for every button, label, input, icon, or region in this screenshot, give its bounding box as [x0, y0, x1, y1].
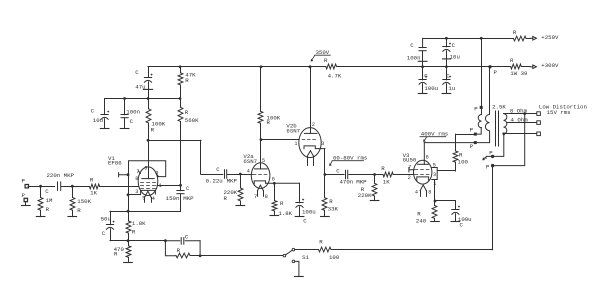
node P (UL tap probe)	[474, 133, 477, 136]
V2a grid (dashed)	[253, 174, 267, 176]
svg-text:4: 4	[152, 196, 155, 202]
V3 cathode lead	[434, 180, 436, 201]
svg-text:C: C	[130, 118, 134, 125]
wire 0.22u to V2a grid	[228, 174, 248, 176]
capacitor C 100u (V2a cathode bypass)	[299, 183, 301, 203]
svg-text:4: 4	[247, 169, 250, 175]
ground (240R)	[431, 221, 440, 223]
capacitor C 100u (V3 cathode bypass)	[455, 201, 457, 209]
wire cathode bypass row	[110, 211, 181, 213]
svg-text:100n: 100n	[407, 54, 421, 61]
capacitor C 100n (B+ filter)	[422, 38, 424, 47]
svg-text:2: 2	[312, 122, 315, 128]
ground arrow (secondary common)	[484, 157, 487, 159]
svg-text:6SN7: 6SN7	[286, 127, 300, 134]
svg-text:4 Ohm: 4 Ohm	[511, 117, 529, 124]
capacitor C 1u (B+ filter lower)	[446, 67, 448, 80]
resistor R (feedback, bottom branch)	[165, 241, 176, 256]
capacitor C 10u (B+ filter)	[445, 37, 448, 40]
transformer secondary winding	[504, 114, 507, 134]
V2b anode lead (pin 2)	[310, 67, 312, 134]
svg-text:400V rms: 400V rms	[421, 130, 448, 137]
wire V3 anode to transformer	[424, 131, 489, 143]
wire screen to R100	[437, 170, 455, 172]
ground (V3 100u)	[451, 221, 460, 223]
svg-text:+250V: +250V	[541, 34, 559, 41]
resistor R 150K	[72, 186, 74, 197]
ground (V2a 100u)	[295, 216, 304, 218]
svg-text:0.22u: 0.22u	[206, 178, 223, 185]
wire common tap	[502, 132, 505, 135]
capacitor C (feedback, top branch)	[165, 240, 200, 242]
svg-text:3: 3	[433, 172, 436, 178]
V1 anode lead (pin 6)	[148, 140, 150, 178]
junction 220K/V2a grid	[239, 173, 242, 176]
svg-text:2: 2	[408, 175, 411, 181]
svg-text:R: R	[510, 57, 514, 64]
capacitor C 47u (decoupling)	[148, 67, 150, 77]
V2b grid (dashed)	[302, 139, 315, 141]
junction 8 Ohm feedback tap	[523, 112, 526, 115]
ground (33K)	[321, 216, 330, 218]
svg-text:R: R	[319, 239, 323, 246]
svg-text:10u: 10u	[93, 117, 103, 124]
resistor R 100K (V1 anode load)	[148, 99, 150, 109]
svg-text:5: 5	[433, 162, 436, 168]
V2a grid stub	[248, 174, 252, 176]
svg-text:R: R	[329, 198, 333, 205]
resistor R 1M (grid leak)	[40, 186, 42, 197]
svg-text:100u: 100u	[424, 85, 438, 92]
svg-text:50u: 50u	[101, 215, 111, 222]
wire 350V rail (left segment)	[148, 66, 326, 68]
wire V2b cathode to 470n	[325, 174, 344, 176]
V1 shield/cathode column	[128, 175, 130, 212]
resistor R 1.8K (V2a cathode)	[274, 183, 276, 200]
svg-text:100: 100	[329, 254, 340, 261]
svg-text:15V rms: 15V rms	[547, 109, 571, 116]
svg-text:R: R	[267, 119, 271, 126]
ground (100n)	[120, 128, 129, 130]
svg-text:R: R	[381, 165, 385, 172]
V2a cathode wire to bypass	[273, 182, 276, 185]
svg-text:EF86: EF86	[108, 160, 122, 167]
svg-text:C: C	[336, 168, 340, 175]
svg-text:P: P	[470, 143, 474, 150]
svg-text:240: 240	[416, 218, 427, 225]
svg-text:P: P	[486, 163, 490, 170]
wire 1K to V1 grid	[100, 186, 139, 188]
ground (150K)	[68, 216, 77, 218]
wire B+ rail right	[337, 66, 511, 68]
svg-text:C: C	[446, 73, 450, 80]
V1 cathode	[141, 190, 156, 194]
svg-text:C: C	[460, 221, 464, 228]
wire input to grid network	[28, 186, 54, 188]
svg-text:1M: 1M	[46, 197, 53, 204]
svg-text:P: P	[489, 150, 493, 157]
svg-text:R: R	[417, 211, 421, 218]
svg-text:R: R	[90, 176, 94, 183]
svg-text:350V: 350V	[316, 49, 330, 56]
svg-text:P: P	[474, 106, 478, 113]
svg-text:MKP: MKP	[227, 178, 238, 185]
capacitor C 150n MKP (screen bypass)	[180, 185, 182, 191]
junction 350V rail / V2b anode	[309, 65, 312, 68]
svg-text:8: 8	[428, 189, 431, 195]
svg-text:R: R	[513, 29, 517, 36]
V3 cathode	[417, 177, 429, 181]
wire shield wrap box V1	[129, 161, 166, 177]
junction 220K/1K	[373, 173, 376, 176]
wire V1 anode row	[148, 140, 201, 142]
transformer UL winding	[481, 109, 483, 115]
ground (220K V3)	[370, 200, 379, 202]
svg-text:4: 4	[415, 189, 418, 195]
svg-text:1W 39: 1W 39	[510, 70, 528, 77]
resistor R 4.7K (B+ dropper)	[326, 64, 337, 69]
svg-text:560K: 560K	[185, 117, 199, 124]
resistor R 100 (screen, from UL tap)	[455, 134, 457, 151]
svg-text:R: R	[280, 200, 284, 207]
svg-text:P: P	[22, 178, 26, 185]
svg-text:60-80V rms: 60-80V rms	[333, 154, 367, 161]
node P (feedback probe)	[491, 164, 494, 167]
wire switch to R100 feedback	[295, 249, 319, 251]
svg-text:C: C	[303, 218, 307, 225]
svg-text:MKP: MKP	[356, 178, 367, 185]
ground (V2a 1.8K)	[270, 215, 279, 217]
svg-text:C: C	[91, 107, 95, 114]
resistor R 470 (cathode)	[128, 241, 130, 246]
svg-text:C: C	[216, 166, 220, 173]
wire 4 Ohm tap	[507, 122, 537, 124]
wire V2a anode to V2b grid	[261, 139, 299, 141]
V3 anode lead (pin 6)	[423, 143, 425, 165]
svg-text:1.8K: 1.8K	[132, 220, 146, 227]
wire cathode node	[435, 200, 455, 202]
wire primary feed	[489, 67, 491, 115]
transformer primary winding 2.5K	[485, 115, 489, 131]
V1 pin 9 tick	[156, 174, 159, 177]
terminal 4 Ohm	[537, 121, 541, 125]
V2a heater	[258, 185, 264, 190]
svg-text:220K: 220K	[358, 192, 372, 199]
svg-text:R: R	[224, 195, 228, 202]
terminal common	[537, 132, 541, 136]
svg-text:5: 5	[142, 196, 145, 202]
svg-text:P: P	[494, 69, 498, 76]
junction input/1M	[39, 185, 42, 188]
resistor R 560K (screen feed)	[180, 99, 182, 108]
transformer core	[495, 111, 497, 146]
junction V2a anode / V2b grid	[260, 138, 263, 141]
V1 pin 7 tick	[138, 171, 140, 173]
resistor R 47K (dropper)	[179, 65, 182, 68]
svg-text:1K: 1K	[383, 178, 390, 185]
svg-text:C: C	[410, 42, 414, 49]
resistor R 33K (V2b cathode load)	[324, 175, 326, 198]
svg-text:1: 1	[294, 141, 297, 147]
svg-text:R: R	[185, 109, 189, 116]
svg-text:150K: 150K	[77, 198, 91, 205]
V3 screen box (pins 5/3)	[432, 168, 437, 180]
svg-text:R: R	[151, 126, 155, 133]
svg-text:33K: 33K	[328, 205, 339, 212]
svg-text:47u: 47u	[135, 84, 145, 91]
node P (B+ rail probe)	[488, 65, 491, 68]
wire down to coupling row	[200, 140, 202, 174]
svg-text:R: R	[324, 57, 328, 64]
terminal 8 Ohm	[537, 112, 541, 116]
tube V1 envelope	[138, 167, 158, 196]
junction cathode/1.8K	[127, 210, 130, 213]
svg-text:100: 100	[458, 158, 469, 165]
svg-text:8: 8	[265, 194, 268, 200]
junction B+ to UL winding	[480, 37, 483, 40]
wire 1K to V3 grid	[393, 174, 414, 176]
ground (1u B+)	[442, 93, 451, 95]
svg-text:6: 6	[144, 165, 147, 171]
svg-text:C: C	[135, 69, 139, 76]
svg-text:5: 5	[262, 158, 265, 164]
capacitor C 100n (rail filter)	[124, 99, 126, 115]
resistor R 240 (cathode bias)	[432, 205, 437, 218]
svg-text:220n MKP: 220n MKP	[47, 172, 75, 179]
V2a anode lead (pin 5)	[260, 140, 262, 169]
wire 8 Ohm tap	[504, 113, 537, 115]
svg-text:3: 3	[321, 141, 324, 147]
V1 heater	[145, 191, 152, 197]
svg-text:4.7K: 4.7K	[328, 72, 342, 79]
ground (220K V2a)	[236, 205, 245, 207]
V3 heater	[420, 185, 426, 191]
junction feedback RC in	[164, 239, 167, 242]
svg-text:R: R	[77, 207, 81, 214]
resistor R 100K (V2a anode load)	[260, 67, 262, 112]
node P (common probe)	[491, 155, 494, 158]
junction screen/150n	[179, 184, 182, 187]
svg-text:470n: 470n	[340, 178, 354, 185]
V3 pin 7 stub	[409, 168, 414, 173]
V1 cathode stub (pin 3)	[128, 194, 140, 196]
svg-text:R: R	[185, 77, 189, 84]
resistor R 1.8K (cathode bias)	[128, 211, 130, 221]
svg-text:7: 7	[408, 165, 411, 171]
wire RC to switch	[200, 255, 283, 257]
svg-text:GU50: GU50	[403, 157, 417, 164]
svg-text:C: C	[102, 230, 106, 237]
svg-text:C: C	[424, 73, 428, 80]
svg-text:R: R	[177, 247, 181, 254]
V1 stub bar	[119, 173, 128, 177]
ground (470R)	[124, 262, 133, 264]
V2b cathode	[304, 146, 325, 149]
terminal +250V	[530, 37, 533, 39]
junction B+ caps lower	[421, 65, 424, 68]
svg-text:+300V: +300V	[541, 62, 559, 69]
resistor R 220K (V3 grid leak)	[374, 175, 376, 184]
svg-text:2.5K: 2.5K	[492, 104, 506, 111]
svg-text:R: R	[46, 206, 50, 213]
wire B+ top rail	[423, 38, 514, 40]
svg-text:100u: 100u	[302, 209, 316, 216]
wire common to ground	[486, 134, 503, 157]
wire screen row (pin 1 to 560K)	[157, 185, 180, 187]
node P (anode probe)	[474, 141, 477, 144]
svg-text:6: 6	[426, 154, 429, 160]
ground (100u B+)	[418, 93, 427, 95]
wire coupling row to 0.22u	[201, 174, 223, 176]
terminal +300V	[530, 66, 533, 68]
switch S1	[283, 254, 286, 257]
junction 150K	[71, 185, 74, 188]
svg-text:100n: 100n	[126, 108, 140, 115]
svg-text:8: 8	[135, 176, 138, 182]
svg-text:1u: 1u	[448, 85, 455, 92]
wire UL tap to R100	[456, 134, 476, 136]
V2b cathode wire down	[324, 149, 326, 175]
wire cap to 1K	[61, 186, 89, 188]
capacitor C 50u (cathode bypass)	[110, 211, 112, 224]
V2b heater	[307, 151, 313, 156]
V3 grids (dashed)	[415, 169, 429, 171]
svg-text:10u: 10u	[450, 54, 460, 61]
junction feedback RC out	[199, 254, 202, 257]
wire feedback to output tap	[331, 249, 493, 251]
svg-text:6: 6	[272, 176, 275, 182]
ground (input return)	[25, 202, 27, 205]
svg-text:C: C	[186, 185, 190, 192]
wire V1 supply rail	[105, 98, 180, 100]
wire feedback row	[110, 240, 165, 242]
resistor R 220K (V2a grid leak)	[240, 174, 242, 188]
svg-text:MKP: MKP	[183, 195, 194, 202]
svg-text:R: R	[114, 250, 118, 257]
wire UL winding feed	[481, 38, 483, 107]
svg-text:1.8K: 1.8K	[278, 210, 292, 217]
node P (UL top probe)	[480, 106, 483, 109]
svg-text:R: R	[132, 229, 136, 236]
capacitor C 10u (rail filter)	[104, 99, 106, 115]
svg-text:C: C	[185, 233, 189, 240]
wire feedback from 4 Ohm tap	[493, 114, 525, 166]
ground (1M)	[36, 216, 45, 218]
wire 470n to 1K	[349, 174, 383, 176]
svg-text:1K: 1K	[90, 190, 97, 197]
svg-text:C: C	[452, 42, 456, 49]
ground (S1 off position)	[295, 261, 299, 276]
capacitor C 100u (B+ filter lower)	[422, 67, 424, 80]
svg-text:7: 7	[254, 194, 257, 200]
junction cathode feedback node	[127, 239, 130, 242]
svg-text:150n: 150n	[166, 195, 180, 202]
svg-text:6SN7: 6SN7	[243, 158, 257, 165]
svg-text:S1: S1	[302, 254, 309, 261]
svg-text:C: C	[45, 188, 49, 195]
V1 grids (dashed)	[141, 182, 156, 184]
svg-text:P: P	[470, 127, 474, 134]
svg-text:1: 1	[159, 183, 162, 189]
V2a cathode	[254, 181, 299, 184]
